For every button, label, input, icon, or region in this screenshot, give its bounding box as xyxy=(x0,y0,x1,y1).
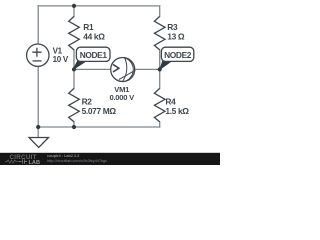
svg-text:LAB: LAB xyxy=(29,160,41,165)
footer logo resistor squiggle xyxy=(5,160,18,163)
node A junction dot xyxy=(72,67,76,71)
voltage source V1 xyxy=(27,44,49,66)
resistor R4 xyxy=(154,88,165,122)
svg-text:NODE2: NODE2 xyxy=(164,50,192,60)
VM1 needle xyxy=(119,70,135,79)
svg-text:R1: R1 xyxy=(83,22,94,32)
wire VM1 right terminal to node B xyxy=(135,68,160,70)
svg-text:NODE1: NODE1 xyxy=(80,50,108,60)
wire R1 bottom to node A xyxy=(73,50,75,70)
svg-text:13 Ω: 13 Ω xyxy=(167,32,185,42)
node flag NODE2 xyxy=(160,47,194,69)
node B junction dot xyxy=(158,67,162,71)
junction dot top rail / R1 xyxy=(72,4,76,8)
VM1 meter dial inner arc xyxy=(123,58,127,82)
ground xyxy=(29,138,49,148)
wire node A to R2 top xyxy=(73,69,75,88)
resistor R1 xyxy=(69,16,80,50)
voltmeter VM1 xyxy=(111,58,136,82)
svg-text:0.000 V: 0.000 V xyxy=(109,93,135,102)
resistor R2 xyxy=(69,88,80,122)
junction dot bottom rail / R2 xyxy=(72,125,76,129)
svg-text:R2: R2 xyxy=(82,96,93,106)
wire R3 bottom to node B xyxy=(159,50,161,70)
node flag NODE1 xyxy=(73,47,110,69)
wire R2 bottom stub xyxy=(73,122,75,127)
wire R1 top stub xyxy=(73,6,75,17)
wire node A to VM1 left terminal xyxy=(74,68,111,70)
footer bar xyxy=(0,153,220,165)
svg-text:couplr4 : Lab2 2.3: couplr4 : Lab2 2.3 xyxy=(47,154,79,158)
wire ground stub xyxy=(37,127,39,137)
footer logo capacitor xyxy=(18,159,27,163)
junction dot bottom rail / ground xyxy=(36,125,40,129)
wire left upper (top rail to V1 top) xyxy=(37,6,39,44)
wire bottom rail xyxy=(38,126,160,128)
svg-text:10 V: 10 V xyxy=(53,55,69,64)
svg-text:44 kΩ: 44 kΩ xyxy=(83,32,105,42)
wire left lower (V1 bottom to bottom rail) xyxy=(37,66,39,127)
svg-text:1.5 kΩ: 1.5 kΩ xyxy=(165,106,189,116)
wire top rail xyxy=(38,5,160,7)
VM1 plus terminal mark xyxy=(113,64,119,72)
svg-text:http://circuitlab.com/c/9c3fcy: http://circuitlab.com/c/9c3fcy447kgx xyxy=(47,159,107,163)
svg-text:R3: R3 xyxy=(167,22,178,32)
resistor R3 xyxy=(154,16,165,50)
VM1 meter dial outer arc xyxy=(123,58,133,82)
wire R4 bottom stub xyxy=(159,122,161,127)
wire node B to R4 top xyxy=(159,69,161,88)
wire R3 top stub xyxy=(159,6,161,17)
svg-text:5.077 MΩ: 5.077 MΩ xyxy=(82,106,117,116)
svg-text:R4: R4 xyxy=(165,96,176,106)
